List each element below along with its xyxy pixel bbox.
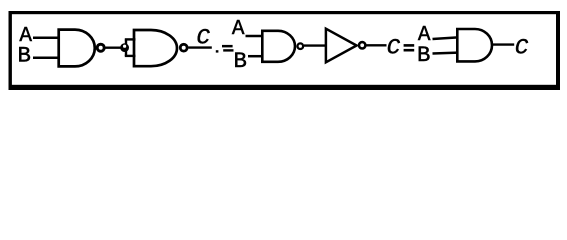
svg-text:C: C <box>515 34 529 60</box>
wire B to NAND U3 input <box>248 55 263 58</box>
wire U5 output to node C <box>493 43 515 45</box>
NAND gate U2 (inverter-connected NAND, circuit 1) <box>134 30 187 66</box>
svg-text:C: C <box>387 35 401 61</box>
svg-text:B: B <box>18 43 31 69</box>
wire U2 output to node C <box>188 46 211 48</box>
wire junction vertical split <box>125 39 127 56</box>
NAND gate U3 (2-input NAND, circuit 2) <box>262 31 303 62</box>
svg-text:B: B <box>234 48 247 74</box>
junction dot (tie point of U2 inputs) <box>120 43 129 52</box>
wire A to NAND U3 input <box>246 35 264 38</box>
NAND gate U1 (2-input NAND, circuit 1) <box>59 30 104 67</box>
AND gate U5 (2-input AND, circuit 3) <box>457 29 492 61</box>
wire B to AND U5 input <box>433 51 459 54</box>
wire U1 output to junction <box>106 47 124 49</box>
inverter U4 (NOT gate triangle with bubble) <box>326 29 366 63</box>
svg-text:A: A <box>232 18 245 41</box>
wire A to AND U5 input <box>433 37 459 39</box>
wire A to NAND U1 input <box>33 37 60 40</box>
svg-text:C: C <box>196 25 210 51</box>
wire U3 output to inverter U4 <box>304 44 327 46</box>
wire B to NAND U1 input <box>33 57 60 60</box>
svg-text:B: B <box>417 42 430 68</box>
wire U4 output to node C <box>367 44 387 46</box>
equals sign between circuit 2 and circuit 3 <box>404 44 415 51</box>
wire junction to U2 lower input <box>125 55 136 57</box>
equals sign (with dot) between circuit 1 and circuit 2 <box>216 45 234 53</box>
wire junction to U2 upper input <box>125 38 136 40</box>
